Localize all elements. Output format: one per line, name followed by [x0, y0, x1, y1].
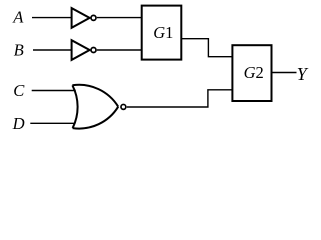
svg-text:D: D: [12, 114, 25, 133]
wire NOT-A to G1: [97, 17, 142, 19]
wire D input: [30, 122, 75, 124]
inverter gate (NOT) on A: [72, 8, 96, 28]
wire A input: [32, 17, 72, 19]
wire C input: [32, 90, 76, 92]
block G2: [232, 45, 271, 101]
NOR gate body: [72, 85, 125, 129]
NOR output bubble: [121, 104, 126, 109]
wire B input: [33, 49, 72, 51]
wire NOR output to G2 bottom input: [127, 90, 233, 107]
svg-text:G2: G2: [244, 63, 264, 82]
wire G1 output to G2 top input: [181, 39, 232, 57]
wire G2 output: [272, 72, 297, 74]
block G1: [142, 6, 182, 60]
svg-text:A: A: [12, 8, 24, 27]
svg-text:G1: G1: [153, 23, 173, 42]
wire NOT-B to G1: [97, 49, 142, 51]
svg-text:B: B: [14, 40, 24, 59]
svg-text:C: C: [13, 81, 25, 100]
inverter gate (NOT) on B: [72, 40, 96, 60]
